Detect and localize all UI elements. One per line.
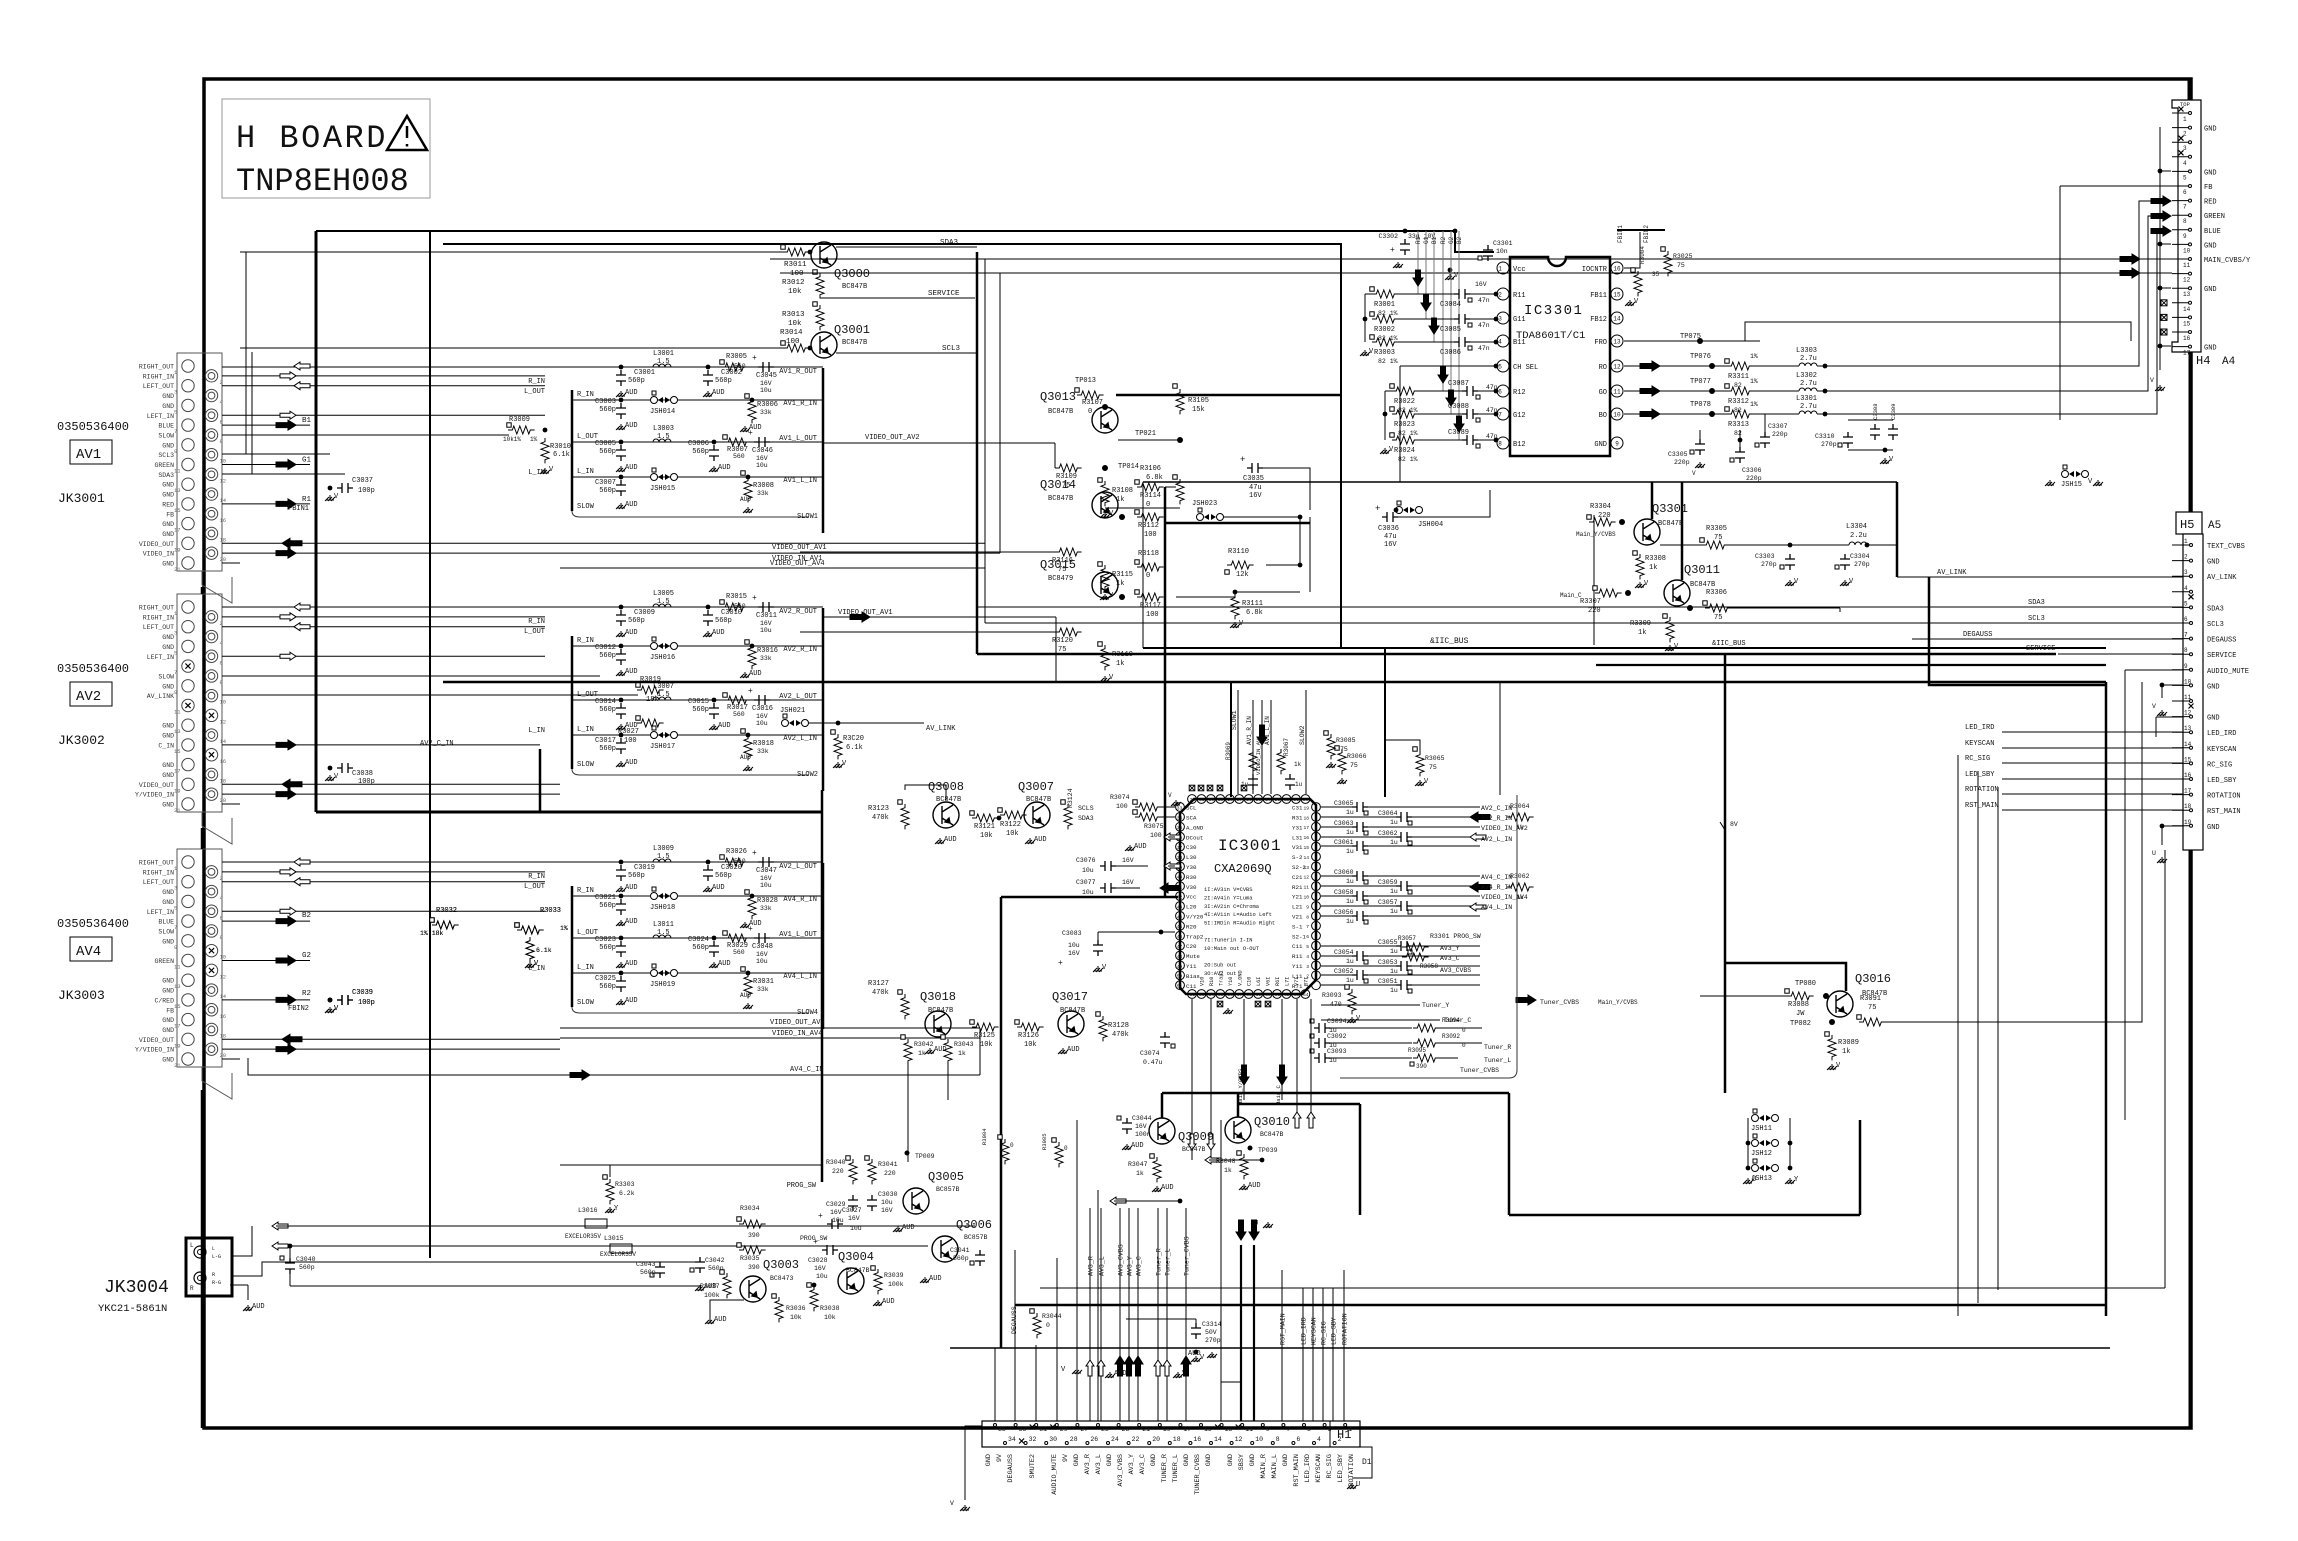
svg-text:RIGHT_OUT: RIGHT_OUT xyxy=(139,860,174,867)
svg-text:L30: L30 xyxy=(1186,854,1197,861)
wire SCL3 long xyxy=(985,622,2052,624)
wire bus AV_LINK thick xyxy=(1929,577,2106,685)
svg-text:R3092: R3092 xyxy=(1442,1033,1460,1040)
wire conn row xyxy=(222,552,1000,554)
IC3301 pin 15 FB11 xyxy=(1611,288,1623,300)
svg-text:7: 7 xyxy=(174,924,177,931)
IC3001 pin 15 xyxy=(1312,842,1321,851)
svg-text:SBSY: SBSY xyxy=(1238,1454,1246,1470)
svg-text:10k: 10k xyxy=(824,1314,836,1321)
svg-text:BC847B: BC847B xyxy=(1060,1007,1085,1015)
svg-text:C3076: C3076 xyxy=(1076,857,1096,864)
resistor R3031 xyxy=(744,973,752,998)
svg-text:L-G: L-G xyxy=(212,1254,221,1260)
svg-text:11: 11 xyxy=(174,468,181,475)
svg-text:560: 560 xyxy=(733,711,745,718)
svg-text:C3029: C3029 xyxy=(826,1201,846,1208)
svg-text:11: 11 xyxy=(1303,885,1309,891)
wire H1 feed x1138 xyxy=(1137,1208,1139,1421)
H4 pin 6 xyxy=(2172,185,2189,187)
svg-text:26: 26 xyxy=(1090,1436,1098,1443)
svg-text:16V: 16V xyxy=(756,951,768,958)
JK3002 pin 12 (nc) xyxy=(205,709,217,721)
IC3001 pin 49 Y11 xyxy=(1176,961,1185,970)
resistor R3041 xyxy=(868,1159,876,1184)
svg-text:220p: 220p xyxy=(1674,459,1690,466)
IC3001 pin 38 L30 xyxy=(1176,852,1185,861)
capacitor C3059 xyxy=(1321,885,1396,887)
svg-text:C3308: C3308 xyxy=(1872,403,1879,420)
svg-text:10u: 10u xyxy=(760,387,772,394)
wire H1 feed x1333 xyxy=(1332,1288,1334,1421)
svg-text:C_IN: C_IN xyxy=(158,742,174,749)
svg-text:GND: GND xyxy=(162,889,174,896)
wire R1 vertical xyxy=(1417,231,1419,294)
svg-text:AUD: AUD xyxy=(1034,836,1047,844)
svg-text:AV3_Y: AV3_Y xyxy=(1440,945,1460,952)
svg-text:Y11: Y11 xyxy=(1292,963,1303,970)
wire r3065 link xyxy=(1385,740,1420,751)
svg-text:6: 6 xyxy=(1306,934,1309,940)
H1 pin 28 xyxy=(1065,1442,1068,1445)
svg-text:R3014: R3014 xyxy=(780,329,803,337)
svg-text:AUD: AUD xyxy=(1161,1184,1174,1192)
svg-text:13: 13 xyxy=(1225,1426,1233,1433)
svg-text:75: 75 xyxy=(1714,534,1722,542)
capacitor C3069 xyxy=(1248,774,1258,790)
resistor R3043 xyxy=(944,1039,952,1064)
arrow filled left xyxy=(282,779,302,789)
wire AV_LINK row xyxy=(222,694,638,696)
wire H4 to H5 link xyxy=(2189,352,2192,512)
svg-text:8: 8 xyxy=(2184,647,2188,654)
svg-text:V: V xyxy=(1168,792,1172,799)
svg-text:10k: 10k xyxy=(1006,830,1019,838)
svg-text:10: 10 xyxy=(2184,678,2192,685)
svg-text:1: 1 xyxy=(1498,266,1502,273)
svg-text:560p: 560p xyxy=(299,1264,315,1271)
connector flag JK3001 xyxy=(202,571,232,603)
wire VIDEO_IN_AV1 feed xyxy=(1261,700,1263,794)
svg-text:V21: V21 xyxy=(1292,914,1303,921)
svg-text:C3085: C3085 xyxy=(1440,326,1461,334)
wire tuner drop x1500 xyxy=(1499,682,1501,795)
svg-text:C3011: C3011 xyxy=(756,612,777,620)
arrow filled right xyxy=(276,1044,296,1054)
IC3001 pin 10 xyxy=(1312,892,1321,901)
JK3001 pin 15 RED xyxy=(182,498,194,510)
wire H1 feed x1090 xyxy=(1089,1208,1091,1421)
svg-text:17: 17 xyxy=(174,768,181,775)
arrow filled BO xyxy=(1640,409,1660,419)
svg-text:2.7u: 2.7u xyxy=(1800,355,1817,363)
wire AV4_C_IN long xyxy=(248,1058,560,1075)
svg-text:Q3007: Q3007 xyxy=(1018,780,1054,794)
arrow Tuner_CVBS xyxy=(1516,995,1536,1005)
wire AV2 R_IN row xyxy=(572,645,823,647)
wire R3024 row xyxy=(1418,439,1462,441)
svg-text:SCL: SCL xyxy=(1186,805,1197,812)
svg-text:JSH017: JSH017 xyxy=(650,743,675,751)
svg-text:R_IN: R_IN xyxy=(528,873,545,881)
JK3003 pin 17 GND xyxy=(182,1013,194,1025)
JK3001 pin 3 LEFT_OUT xyxy=(182,380,194,392)
svg-text:C3014: C3014 xyxy=(595,698,616,706)
junction BO xyxy=(1823,412,1828,417)
arrow open left xyxy=(294,878,310,886)
svg-text:C3062: C3062 xyxy=(1378,830,1398,837)
svg-text:R3039: R3039 xyxy=(884,1272,904,1279)
inductor L3011 xyxy=(653,935,671,938)
svg-text:R3088: R3088 xyxy=(1788,1001,1809,1009)
svg-text:GO: GO xyxy=(1599,389,1607,397)
svg-text:R_IN: R_IN xyxy=(577,637,594,645)
JK3002 pin 6 LEFT_IN xyxy=(205,650,217,662)
arrow open up AV3RL xyxy=(1086,1360,1094,1376)
svg-text:AV3_R: AV3_R xyxy=(1084,1454,1092,1474)
wire B1 vertical xyxy=(1433,231,1435,342)
svg-text:Trap2: Trap2 xyxy=(1186,933,1204,940)
JK3001 pin 19 VIDEO_OUT xyxy=(182,537,194,549)
arrow open right xyxy=(280,613,296,621)
svg-text:27: 27 xyxy=(1237,797,1243,803)
svg-text:R3005: R3005 xyxy=(726,353,747,361)
transistor Q3018 xyxy=(925,1011,951,1037)
svg-text:VIDEO_OUT_AV2: VIDEO_OUT_AV2 xyxy=(865,434,920,442)
svg-text:AV1_L_IN: AV1_L_IN xyxy=(783,477,817,485)
svg-text:AV4_C_IN: AV4_C_IN xyxy=(1481,874,1512,881)
IC3301 pin 11 GO xyxy=(1611,385,1623,397)
svg-text:AV1: AV1 xyxy=(76,447,101,463)
IC3001 pin 47 C20 xyxy=(1176,941,1185,950)
H4 pin 5 xyxy=(2172,170,2189,172)
ground jsh left xyxy=(1743,1178,1753,1184)
svg-text:18: 18 xyxy=(2184,803,2192,810)
svg-text:37: 37 xyxy=(1177,845,1183,851)
svg-text:BC857B: BC857B xyxy=(936,1186,960,1193)
wire conn row xyxy=(222,793,560,795)
svg-text:SLOW4: SLOW4 xyxy=(797,1009,818,1017)
svg-text:L31: L31 xyxy=(1292,834,1303,841)
ground jsh right xyxy=(1785,1178,1795,1184)
svg-text:C3306: C3306 xyxy=(1742,467,1762,474)
svg-text:1u: 1u xyxy=(1346,848,1354,855)
ground q3009 xyxy=(1152,1186,1162,1192)
transistor Q3008 xyxy=(933,802,959,828)
svg-text:6: 6 xyxy=(2184,616,2188,623)
H5 pin 1 xyxy=(2172,544,2190,546)
wire conn row xyxy=(222,910,545,912)
svg-text:GND: GND xyxy=(1249,1454,1257,1466)
svg-text:8V: 8V xyxy=(1730,821,1738,828)
wire y1288 thin xyxy=(1040,1287,2165,1289)
svg-text:AV3_CVBS: AV3_CVBS xyxy=(1118,1244,1125,1276)
svg-text:7: 7 xyxy=(1498,412,1502,419)
wire H1 left gnd xyxy=(965,1426,982,1500)
svg-text:RST_MAIN: RST_MAIN xyxy=(1293,1454,1301,1487)
svg-text:14: 14 xyxy=(220,738,227,745)
svg-text:560: 560 xyxy=(733,949,745,956)
resistor R3116 xyxy=(1055,548,1082,556)
svg-text:1u: 1u xyxy=(1390,819,1398,826)
svg-text:9: 9 xyxy=(1615,441,1619,448)
ground c3314 xyxy=(1191,1356,1201,1362)
svg-text:FB: FB xyxy=(166,1007,174,1014)
svg-text:C3059: C3059 xyxy=(1378,879,1398,886)
IC3301 pin 16 IOCNTR xyxy=(1611,262,1623,274)
svg-text:D1: D1 xyxy=(1362,1458,1372,1467)
svg-text:1: 1 xyxy=(2183,116,2187,123)
svg-text:2O:Sub out: 2O:Sub out xyxy=(1204,963,1236,969)
svg-text:16: 16 xyxy=(220,1013,227,1020)
svg-text:220: 220 xyxy=(1598,512,1611,520)
wire conn row xyxy=(222,606,545,608)
wire H4 pin13 gnd xyxy=(2160,287,2171,289)
IC3001 pin 51 C11 xyxy=(1176,981,1185,990)
svg-text:18: 18 xyxy=(1303,815,1309,821)
connector outline JK3002 xyxy=(177,594,222,812)
wire r3001 left rail xyxy=(1365,293,1372,295)
resistor R3307 xyxy=(1595,589,1622,597)
ground Q3018 xyxy=(925,1048,935,1054)
svg-text:TP014: TP014 xyxy=(1118,463,1139,471)
svg-text:5I:IRDin R=Audio Right: 5I:IRDin R=Audio Right xyxy=(1204,921,1275,927)
svg-text:RC_SIG: RC_SIG xyxy=(1965,755,1990,763)
ground Q3013 xyxy=(1100,512,1110,518)
wire conn row xyxy=(222,920,310,922)
svg-text:49: 49 xyxy=(1177,964,1183,970)
svg-text:56: 56 xyxy=(1227,992,1233,998)
svg-text:38: 38 xyxy=(1177,855,1183,861)
resistor R3015 xyxy=(721,603,748,611)
svg-text:15: 15 xyxy=(2183,320,2191,327)
svg-text:U: U xyxy=(2152,850,2156,857)
svg-text:C3007: C3007 xyxy=(595,479,616,487)
wire jsh023 right xyxy=(1224,516,1300,518)
capacitor C3064 xyxy=(1321,816,1396,818)
svg-text:L_OUT: L_OUT xyxy=(524,628,545,636)
svg-text:12: 12 xyxy=(220,973,227,980)
svg-text:R3036: R3036 xyxy=(786,1305,806,1312)
JK3002 pin 2 RIGHT_IN xyxy=(205,611,217,623)
resistor R3024 xyxy=(1392,436,1419,444)
svg-text:Y11: Y11 xyxy=(1186,963,1197,970)
svg-text:1.5: 1.5 xyxy=(657,358,670,366)
svg-text:Vcc: Vcc xyxy=(1513,266,1526,274)
IC3001 pin 6 xyxy=(1312,931,1321,940)
capacitor C3016 xyxy=(754,695,770,705)
svg-text:16: 16 xyxy=(1193,1436,1201,1443)
wire bus x1231 xyxy=(1230,682,1232,797)
svg-text:50V: 50V xyxy=(1205,1329,1217,1336)
H1 pin 3 xyxy=(1323,1424,1326,1427)
svg-text:RC_SIG: RC_SIG xyxy=(2207,761,2232,769)
capacitor C3043 xyxy=(655,1262,665,1278)
svg-text:R3018: R3018 xyxy=(753,740,774,748)
JK3002 pin 13 GND xyxy=(182,719,194,731)
svg-text:16V: 16V xyxy=(1122,857,1134,864)
svg-text:59: 59 xyxy=(1256,992,1262,998)
svg-text:U: U xyxy=(1752,1176,1756,1184)
svg-text:G1: G1 xyxy=(302,457,312,465)
wire bus SERVICE y654 xyxy=(977,653,2056,656)
svg-text:Q3301: Q3301 xyxy=(1652,502,1688,516)
svg-text:LED_SBY: LED_SBY xyxy=(1965,771,1995,779)
resistor R3038 xyxy=(810,1286,818,1311)
svg-text:57: 57 xyxy=(1237,992,1243,998)
wire FRO out xyxy=(1624,340,1745,342)
svg-text:C3006: C3006 xyxy=(688,440,709,448)
svg-text:19: 19 xyxy=(174,1042,181,1049)
svg-text:R_IN: R_IN xyxy=(577,391,594,399)
H4 pin 15 ncbox xyxy=(2161,314,2167,320)
jumper JSH15 xyxy=(2062,471,2069,478)
resistor R3111 xyxy=(1231,594,1239,619)
JK3002 pin 8 SLOW xyxy=(205,670,217,682)
svg-text:3: 3 xyxy=(1306,964,1309,970)
resistor R3125 xyxy=(972,1023,999,1031)
H1 D1 box xyxy=(1352,1447,1372,1478)
capacitor C3046 xyxy=(754,437,770,447)
resistor R3309 xyxy=(1666,617,1674,642)
svg-text:SCL3: SCL3 xyxy=(158,452,174,459)
arrow open right xyxy=(280,372,296,380)
svg-text:GND: GND xyxy=(2204,169,2217,177)
svg-text:100: 100 xyxy=(624,737,637,745)
svg-text:FB: FB xyxy=(2204,184,2212,192)
transistor Q3009 xyxy=(1149,1118,1175,1144)
svg-text:R3119: R3119 xyxy=(1112,651,1133,659)
svg-text:C3084: C3084 xyxy=(1440,301,1461,309)
ground C3301 xyxy=(1448,268,1453,273)
svg-text:C3024: C3024 xyxy=(688,936,709,944)
capacitor C3040 xyxy=(285,1258,295,1274)
svg-text:21: 21 xyxy=(174,566,181,573)
svg-text:20: 20 xyxy=(220,797,227,804)
svg-text:C3304: C3304 xyxy=(1850,553,1870,560)
svg-text:R3001: R3001 xyxy=(1374,301,1395,309)
JK3003 pin 13 GND xyxy=(182,974,194,986)
resistor R3311 xyxy=(1727,362,1754,370)
H5 pin 8 xyxy=(2172,653,2190,655)
capacitor C3023 xyxy=(619,936,624,941)
svg-text:AV3_Y: AV3_Y xyxy=(1128,1454,1136,1474)
svg-text:L3304: L3304 xyxy=(1846,523,1867,531)
H5 pin 16 xyxy=(2172,778,2190,780)
svg-text:C3010: C3010 xyxy=(721,609,742,617)
wire r3110 node xyxy=(1298,563,1303,568)
svg-text:6.1k: 6.1k xyxy=(846,744,863,752)
svg-text:11: 11 xyxy=(1245,1426,1253,1433)
wire bus y812 xyxy=(316,811,822,814)
svg-text:33: 33 xyxy=(1019,1426,1027,1433)
H1 pin 29 xyxy=(1055,1424,1058,1427)
svg-text:16: 16 xyxy=(220,758,227,765)
wire B2 vertical xyxy=(1458,231,1460,440)
svg-text:Q3017: Q3017 xyxy=(1052,990,1088,1004)
wire q3014 base rows xyxy=(800,551,1055,553)
svg-text:FBIN2: FBIN2 xyxy=(288,1005,309,1013)
wire q3003 e xyxy=(710,1300,744,1318)
resistor R3089 xyxy=(1828,1035,1836,1060)
IC3001 pin 52 xyxy=(1188,990,1197,999)
wire conn row xyxy=(222,464,310,466)
svg-text:AV3_C: AV3_C xyxy=(1440,955,1460,962)
inductor L3009 xyxy=(653,859,671,862)
svg-text:BC847B: BC847B xyxy=(1048,495,1073,503)
svg-text:6.1k: 6.1k xyxy=(536,947,552,954)
svg-text:JSH019: JSH019 xyxy=(650,981,675,989)
svg-text:6: 6 xyxy=(1296,1436,1300,1443)
wire bus left vertical x316 xyxy=(315,231,318,812)
H5 pin 9 xyxy=(2172,669,2190,671)
svg-text:C3042: C3042 xyxy=(705,1257,725,1264)
svg-text:12: 12 xyxy=(2184,710,2192,717)
svg-text:10n: 10n xyxy=(1496,248,1508,255)
svg-text:AUDIO_MUTE: AUDIO_MUTE xyxy=(1051,1454,1059,1495)
resistor R3028 xyxy=(748,894,756,919)
svg-text:63: 63 xyxy=(1294,992,1300,998)
svg-text:SLOW: SLOW xyxy=(158,432,174,439)
svg-text:R3023: R3023 xyxy=(1394,421,1415,429)
svg-text:560p: 560p xyxy=(599,983,616,991)
svg-text:R6I: R6I xyxy=(1275,977,1281,986)
resistor R3107 xyxy=(1077,391,1104,399)
svg-text:AV_LINK: AV_LINK xyxy=(2207,574,2237,582)
ground h1 u xyxy=(1263,1222,1273,1228)
IC3301 pin 10 BO xyxy=(1611,408,1623,420)
svg-text:C3055: C3055 xyxy=(1378,939,1398,946)
svg-text:C3046: C3046 xyxy=(752,447,773,455)
svg-text:17: 17 xyxy=(2184,788,2192,795)
svg-text:AUD: AUD xyxy=(625,464,638,472)
svg-text:R1: R1 xyxy=(302,496,312,504)
svg-text:DEGAUSS: DEGAUSS xyxy=(1007,1454,1015,1483)
svg-text:R3074: R3074 xyxy=(1110,794,1130,801)
svg-text:3I:AV2in C=Chroma: 3I:AV2in C=Chroma xyxy=(1204,904,1260,910)
capacitor C3052 xyxy=(1321,974,1352,976)
svg-text:G12: G12 xyxy=(1513,412,1526,420)
svg-text:FBIN2: FBIN2 xyxy=(1643,225,1650,243)
wire H1 feed x995 xyxy=(994,1348,996,1421)
H1 pin 1 xyxy=(1344,1424,1347,1427)
svg-text:8: 8 xyxy=(220,679,223,686)
svg-text:SLOW: SLOW xyxy=(577,503,595,511)
svg-text:0: 0 xyxy=(1146,501,1150,509)
capacitor C3037 xyxy=(337,483,353,493)
H1 pin 7 xyxy=(1282,1424,1285,1427)
JK3001 pin 1 RIGHT_OUT xyxy=(182,360,194,372)
H1 pin 25 xyxy=(1097,1424,1100,1427)
svg-text:R3125: R3125 xyxy=(974,1032,995,1040)
svg-text:C3009: C3009 xyxy=(634,609,655,617)
capacitor C3036 xyxy=(1382,512,1398,522)
wire gnd row q3013 xyxy=(1105,507,1180,509)
resistor R3016 xyxy=(748,644,756,669)
svg-text:470k: 470k xyxy=(1112,1031,1129,1039)
svg-text:AUD: AUD xyxy=(749,670,762,678)
svg-text:10u: 10u xyxy=(881,1199,893,1206)
resistor R3040 xyxy=(849,1159,857,1184)
svg-text:2.7u: 2.7u xyxy=(1800,403,1817,411)
JK3002 pin 14 GND xyxy=(205,729,217,741)
svg-text:0: 0 xyxy=(1088,408,1092,416)
H1 pin 5 xyxy=(1303,1424,1306,1427)
svg-text:14: 14 xyxy=(2184,741,2192,748)
svg-text:13: 13 xyxy=(2184,725,2192,732)
arrow open jk2 xyxy=(272,1242,288,1250)
svg-text:Main_Y/CVBS: Main_Y/CVBS xyxy=(1598,999,1638,1006)
